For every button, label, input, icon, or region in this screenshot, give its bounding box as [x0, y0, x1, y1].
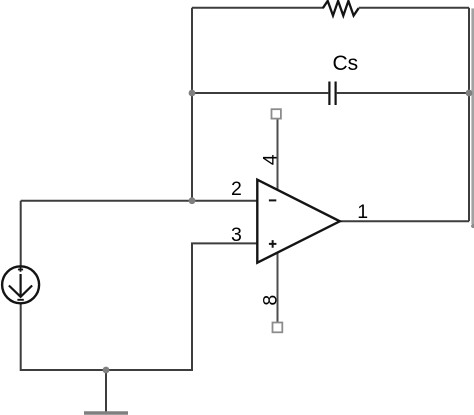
svg-text:2: 2: [231, 178, 242, 200]
svg-text:3: 3: [231, 224, 242, 246]
svg-text:Cs: Cs: [333, 52, 359, 75]
svg-text:4: 4: [259, 154, 281, 165]
svg-text:1: 1: [357, 201, 368, 223]
svg-text:8: 8: [259, 295, 281, 306]
